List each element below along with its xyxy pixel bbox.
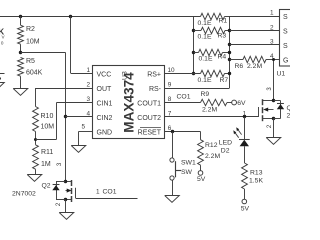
pin name CIN1	[97, 100, 113, 107]
node R6 tap junction	[228, 58, 231, 61]
value label (clipped)	[1, 41, 4, 46]
transistor Q2 channel	[71, 180, 73, 202]
value 0.1E of R1	[198, 20, 212, 27]
value 0.1E of R7	[198, 77, 212, 84]
terminal 6V supply	[232, 100, 237, 105]
svg-text:2.2M: 2.2M	[247, 63, 262, 70]
svg-text:R9: R9	[201, 91, 210, 98]
wire Q1 drain riser to pin4 net	[273, 60, 275, 101]
svg-text:Q2: Q2	[42, 182, 51, 189]
battery B1 positive plate	[0, 73, 5, 75]
resistor R13	[242, 163, 248, 189]
svg-text:SW: SW	[181, 169, 193, 176]
transistor Q1 drain stub	[263, 100, 274, 102]
net label PACK (clipped)	[0, 28, 4, 37]
value 10M of R10	[41, 124, 55, 131]
svg-text:604K: 604K	[26, 69, 43, 76]
svg-text:R3: R3	[218, 32, 227, 39]
transistor Q2 source stub	[66, 199, 72, 201]
node R3 right junction	[228, 29, 231, 32]
ground battery	[0, 83, 4, 90]
pin name S3 of U1	[283, 43, 288, 50]
svg-text:3: 3	[86, 96, 90, 103]
pin name GND	[97, 129, 113, 136]
svg-text:0.1E: 0.1E	[199, 56, 213, 63]
pin number 3 of Q2	[57, 162, 63, 166]
svg-text:2: 2	[270, 25, 274, 32]
node R7 left junction	[192, 72, 195, 75]
transistor Q1 gate	[258, 107, 260, 117]
label R3	[218, 32, 227, 39]
wire R13 to 5V terminal	[244, 189, 246, 199]
svg-text:GND: GND	[97, 129, 113, 136]
label R5	[26, 58, 35, 65]
wire COUT1 pin 8	[165, 102, 201, 104]
ground below R5	[13, 89, 28, 96]
svg-text:2.2M: 2.2M	[202, 106, 217, 113]
resistor R4	[194, 49, 230, 55]
svg-text:CIN1: CIN1	[97, 100, 113, 107]
node R4 right junction	[228, 51, 231, 54]
wire pin2 to connector	[230, 30, 280, 32]
svg-text:R1: R1	[219, 18, 228, 25]
transistor Q2 body arrow	[66, 189, 72, 193]
value 1.5K of R13	[249, 177, 263, 184]
node VCC riser junction	[69, 15, 72, 18]
svg-text:G: G	[283, 57, 288, 64]
resistor R6	[230, 56, 280, 62]
value 604K of R5	[26, 69, 43, 76]
svg-text:MAX4374: MAX4374	[122, 72, 137, 133]
resistor R11	[33, 145, 39, 175]
node Q2 drain junction	[64, 180, 67, 183]
pin name VCC	[97, 71, 112, 78]
svg-text:V: V	[2, 35, 6, 40]
terminal 5V for R13	[242, 199, 247, 204]
svg-text:S: S	[283, 29, 288, 36]
svg-text:2: 2	[56, 202, 62, 206]
transistor Q2 gate	[75, 188, 77, 198]
wire CIN1 tap	[36, 103, 94, 140]
svg-text:R6: R6	[235, 63, 244, 70]
label D2	[221, 147, 230, 154]
wire reset to R12	[200, 132, 202, 140]
svg-text:R4: R4	[218, 53, 227, 60]
wire switch to ground	[172, 180, 174, 195]
wire pin1 to connector	[230, 16, 280, 18]
resistor R5	[18, 57, 24, 88]
node CIN2 pin junction	[64, 115, 67, 118]
svg-text:9: 9	[168, 82, 172, 89]
svg-text:RESET: RESET	[138, 129, 162, 136]
ground below Q2	[59, 213, 74, 220]
svg-text:U1: U1	[277, 71, 286, 78]
value 10M of R2	[26, 39, 40, 46]
pin name RESET with overline	[138, 128, 162, 137]
pin number 3 of U3	[86, 96, 90, 103]
label R12	[205, 142, 218, 149]
ground of U3 pin 5	[71, 146, 86, 153]
svg-text:RS-: RS-	[149, 86, 162, 93]
svg-text:0: 0	[1, 41, 4, 46]
wire CIN2 pin 4 stub	[66, 116, 94, 118]
label 5V under R13	[241, 206, 250, 213]
svg-text:VCC: VCC	[97, 71, 112, 78]
svg-text:10: 10	[168, 67, 176, 74]
part 2N7002 of Q1 (clipped)	[287, 112, 311, 119]
transistor Q1 channel	[262, 99, 264, 121]
pin number 7 of U3	[168, 111, 172, 118]
svg-text:Q1: Q1	[287, 105, 291, 112]
wire left sense bus	[193, 16, 195, 74]
svg-text:0.1E: 0.1E	[198, 34, 212, 41]
connector U1 body	[280, 10, 294, 67]
svg-text:2N7002: 2N7002	[12, 190, 36, 197]
svg-text:CO1: CO1	[177, 93, 191, 100]
LED D2 emission arrows	[233, 127, 241, 138]
label R2	[26, 26, 35, 33]
refdes U3	[121, 71, 128, 80]
svg-text:0.1E: 0.1E	[198, 20, 212, 27]
wire pin3 to connector	[230, 44, 280, 46]
resistor R3	[194, 27, 230, 33]
label LED	[219, 140, 232, 147]
transistor Q1 source stub	[263, 118, 274, 120]
wire Q2 gate to CO1	[76, 198, 138, 200]
svg-text:1: 1	[86, 67, 90, 74]
svg-text:R2: R2	[26, 26, 35, 33]
value 2.2M of R9	[202, 106, 217, 113]
pin number 4 of U1	[270, 53, 274, 60]
node R3 left junction	[192, 29, 195, 32]
svg-text:R10: R10	[41, 113, 54, 120]
pin name S2 of U1	[283, 29, 288, 36]
label SW1	[181, 159, 196, 166]
svg-text:4: 4	[86, 111, 90, 118]
transistor Q2 body diode	[52, 182, 65, 200]
pin number 3 of U1	[270, 39, 274, 46]
svg-text:CO1: CO1	[103, 188, 117, 195]
net label CO1 at Q2 gate	[103, 188, 117, 195]
resistor R10	[33, 107, 39, 132]
wire RS- pin 9	[165, 88, 230, 90]
battery B1 negative plate	[0, 78, 1, 80]
resistor R9	[201, 99, 232, 105]
svg-text:1: 1	[96, 188, 100, 195]
wire COUT2 pin 7 to Q1 gate	[165, 116, 258, 118]
svg-text:COUT1: COUT1	[137, 100, 161, 107]
refdes Q2	[42, 182, 51, 189]
svg-text:CIN2: CIN2	[97, 115, 113, 122]
svg-text:3: 3	[57, 162, 63, 166]
wire Q1 source to ground	[273, 119, 275, 138]
node Q1 drain tap on pin4 wire	[272, 58, 275, 61]
wire RS+ pin 10	[165, 73, 201, 75]
value 0.1E of R3	[198, 34, 212, 41]
svg-text:2: 2	[267, 124, 273, 128]
svg-text:2: 2	[86, 82, 90, 89]
label R10	[41, 113, 54, 120]
wire reset to switch	[172, 132, 174, 158]
svg-text:D2: D2	[221, 147, 230, 154]
label R13	[250, 170, 263, 177]
pin number 3 of Q1	[267, 87, 273, 91]
svg-text:R11: R11	[41, 149, 53, 156]
svg-text:SW1: SW1	[181, 159, 196, 166]
pin number 2 of Q2	[56, 202, 62, 206]
svg-text:2.2M: 2.2M	[205, 153, 220, 160]
node Q1 drain junction	[272, 99, 275, 102]
pin name G of U1	[283, 57, 288, 64]
resistor R7	[201, 70, 230, 76]
transistor Q1 body diode	[274, 101, 285, 119]
resistor R12	[198, 140, 204, 165]
wire OUT pin 2 to R10	[36, 88, 94, 107]
label R4	[218, 53, 227, 60]
wire VCC riser	[71, 16, 94, 74]
wire top rail from battery to R1	[0, 16, 201, 18]
wire R10 bottom to R11 top	[35, 132, 37, 145]
net label CO1 on pin8	[177, 93, 191, 100]
svg-text:R13: R13	[250, 170, 263, 177]
pin number 2 of U3	[86, 82, 90, 89]
pin number 2 of Q1	[267, 124, 273, 128]
pin number 9 of U3	[168, 82, 172, 89]
label R11	[41, 149, 53, 156]
LED D2	[239, 140, 250, 164]
part name MAX4374	[122, 72, 137, 133]
svg-text:OUT: OUT	[97, 86, 113, 93]
wire Q2 source to ground	[65, 200, 67, 213]
svg-text:5V: 5V	[197, 176, 206, 183]
pin number 8 of U3	[168, 96, 172, 103]
wire R2-R5 tap to CIN2 riser	[21, 52, 66, 54]
node R10-R11 junction	[34, 138, 37, 141]
switch SW1 actuator	[175, 161, 181, 177]
svg-text:1M: 1M	[41, 161, 51, 168]
pin number 1 of U3	[86, 67, 90, 74]
pin name OUT	[97, 86, 113, 93]
svg-text:3: 3	[270, 39, 274, 46]
node pin3 tap junction	[228, 43, 231, 46]
label 5V under R12	[197, 176, 206, 183]
label R7	[220, 77, 229, 84]
value 2.2M of R6	[247, 63, 262, 70]
svg-text:RS+: RS+	[147, 71, 161, 78]
label 6V	[237, 100, 246, 107]
ground below SW1	[165, 196, 180, 203]
value 0.1E of R4	[199, 56, 213, 63]
value 1M of R11	[41, 161, 51, 168]
pin name COUT2	[137, 115, 161, 122]
wire right sense bus	[229, 16, 231, 88]
pin number 6 of U3	[168, 125, 172, 132]
wire RESET pin 6	[165, 131, 201, 133]
ground below R11	[27, 175, 42, 182]
svg-text:R7: R7	[220, 77, 229, 84]
svg-text:LED: LED	[219, 140, 232, 147]
pin name RS+	[147, 71, 161, 78]
svg-text:COUT2: COUT2	[137, 115, 161, 122]
svg-text:5V: 5V	[241, 206, 250, 213]
ground below Q1	[266, 138, 281, 145]
label R9	[201, 91, 210, 98]
part 2N7002 of Q2	[12, 190, 36, 197]
pin name CIN2	[97, 115, 113, 122]
svg-text:R5: R5	[26, 58, 35, 65]
label SW	[181, 169, 193, 176]
svg-text:8: 8	[168, 96, 172, 103]
terminal 5V for R12	[198, 171, 203, 176]
pin number 1 of Q2	[96, 188, 100, 195]
value label 3.6V (clipped)	[2, 35, 6, 40]
node LED tap junction	[243, 115, 246, 118]
pin number 1 of Q1 gate	[243, 111, 247, 118]
op-amp U3 MAX4374 body	[93, 66, 165, 139]
svg-text:1: 1	[243, 111, 247, 118]
transistor Q1 body arrow	[263, 108, 273, 112]
pin name S1 of U1	[283, 14, 288, 21]
resistor R2	[18, 16, 24, 53]
node R4 left junction	[192, 51, 195, 54]
pin name COUT1	[137, 100, 161, 107]
node R7 right junction	[228, 72, 231, 75]
pin number 1 of U1	[270, 10, 274, 17]
label R6	[235, 63, 244, 70]
svg-text:3: 3	[267, 87, 273, 91]
pin number 5 of U3	[81, 124, 85, 131]
svg-text:0.1E: 0.1E	[198, 77, 212, 84]
label R1	[219, 18, 228, 25]
node R2-R5 junction	[19, 51, 22, 54]
switch SW1 top contact	[170, 158, 174, 162]
node Q1 source junction	[272, 117, 275, 120]
svg-text:10M: 10M	[26, 39, 40, 46]
wire CIN2 riser vertical	[65, 53, 67, 182]
node battery tap junction	[19, 15, 22, 18]
pin name RS-	[149, 86, 162, 93]
wire R12 to 5V terminal	[200, 165, 202, 170]
node switch tap junction	[171, 130, 174, 133]
wire GND pin 5 to ground	[79, 132, 94, 146]
svg-text:S: S	[283, 43, 288, 50]
node Q2 source junction	[64, 198, 67, 201]
resistor R1	[201, 13, 230, 19]
pin number 4 of U3	[86, 111, 90, 118]
svg-text:1: 1	[270, 10, 274, 17]
svg-text:10M: 10M	[41, 124, 55, 131]
wire pin7 tap down to LED	[244, 117, 246, 139]
svg-text:S: S	[283, 14, 288, 21]
svg-text:1.5K: 1.5K	[249, 177, 263, 184]
refdes Q1 (clipped)	[287, 105, 296, 112]
svg-text:2N7002: 2N7002	[287, 112, 291, 119]
value 2.2M of R12	[205, 153, 220, 160]
svg-text:5: 5	[81, 124, 85, 131]
refdes U1	[277, 71, 286, 78]
pin number 2 of U1	[270, 25, 274, 32]
svg-text:6V: 6V	[237, 100, 246, 107]
pin number 10 of U3	[168, 67, 176, 74]
transistor Q2 drain stub	[66, 181, 72, 183]
switch SW1 bottom contact	[170, 176, 174, 180]
svg-text:R12: R12	[205, 142, 218, 149]
